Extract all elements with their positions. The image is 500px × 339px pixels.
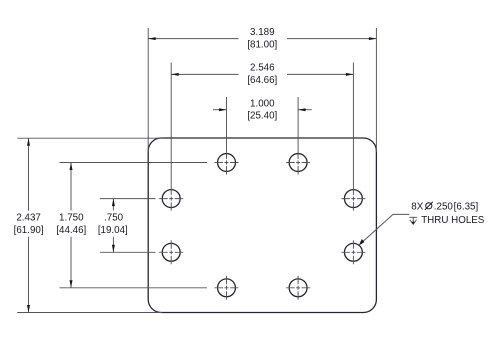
svg-text:[64.66]: [64.66] bbox=[247, 75, 277, 86]
dimension 1.750 [44.46] hole row span bbox=[56, 163, 86, 288]
extension line right edge (for 3.189 dim) bbox=[375, 28, 377, 152]
extension line left hole column (for 2.546 dim) bbox=[170, 63, 172, 187]
extension line plate top (for 2.437 dim) bbox=[17, 137, 162, 139]
dimension 3.189 [81.00] overall width bbox=[148, 27, 376, 51]
extension line left lower hole (for .750 dim) bbox=[100, 251, 156, 253]
extension line left upper hole (for .750 dim) bbox=[100, 198, 156, 200]
svg-text:1.750: 1.750 bbox=[59, 213, 84, 224]
svg-text:3.189: 3.189 bbox=[250, 27, 275, 38]
extension line top-left hole (for 1.000 dim) bbox=[226, 97, 228, 151]
svg-text:.250 [6.35]: .250 [6.35] bbox=[434, 201, 479, 212]
svg-text:[61.90]: [61.90] bbox=[14, 225, 44, 236]
extension line top-right hole (for 1.000 dim) bbox=[297, 97, 299, 151]
dimension 2.546 [64.66] hole column span bbox=[171, 63, 353, 87]
extension line right hole column (for 2.546 dim) bbox=[352, 63, 354, 187]
dimension 2.437 [61.90] overall height bbox=[14, 138, 44, 312]
svg-text:.750: .750 bbox=[104, 213, 124, 224]
diameter symbol bbox=[425, 202, 433, 210]
svg-text:[25.40]: [25.40] bbox=[247, 111, 277, 122]
hole H6 right-lower bbox=[341, 240, 365, 264]
depth symbol (down arrow from bar) bbox=[409, 217, 417, 224]
svg-text:2.546: 2.546 bbox=[250, 63, 275, 74]
extension line plate bottom (for 2.437 dim) bbox=[17, 312, 162, 314]
svg-text:2.437: 2.437 bbox=[16, 213, 41, 224]
svg-text:[44.46]: [44.46] bbox=[56, 225, 86, 236]
extension line bottom hole row (for 1.750 dim) bbox=[60, 287, 208, 289]
dimension .750 [19.04] left hole spacing bbox=[98, 199, 128, 253]
svg-text:8X: 8X bbox=[411, 201, 423, 212]
svg-text:1.000: 1.000 bbox=[250, 98, 275, 109]
hole H3 left-upper bbox=[159, 187, 183, 211]
leader line to hole H6 bbox=[359, 214, 410, 245]
hole H1 top-left bbox=[215, 151, 239, 175]
svg-text:[19.04]: [19.04] bbox=[98, 225, 128, 236]
hole H7 bottom-left bbox=[215, 276, 239, 300]
extension line top hole row (for 1.750 dim) bbox=[60, 162, 208, 164]
hole H2 top-right bbox=[286, 151, 310, 175]
svg-text:[81.00]: [81.00] bbox=[247, 39, 277, 50]
hole H4 left-lower bbox=[159, 240, 183, 264]
svg-text:THRU HOLES: THRU HOLES bbox=[421, 215, 485, 226]
hole H5 right-upper bbox=[341, 187, 365, 211]
dimension 1.000 [25.40] top hole spacing (arrows outside) bbox=[213, 98, 312, 121]
hole H8 bottom-right bbox=[286, 276, 310, 300]
plate outline (rounded rectangle body) bbox=[148, 138, 376, 313]
extension line left edge (for 3.189 dim) bbox=[147, 28, 149, 152]
